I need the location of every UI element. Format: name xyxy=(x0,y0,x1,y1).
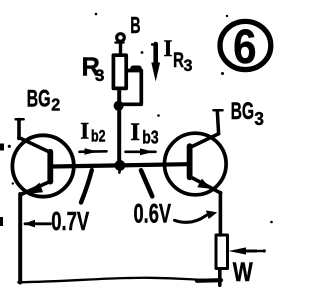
svg-text:BG: BG xyxy=(27,85,51,112)
svg-text:3: 3 xyxy=(184,56,193,75)
svg-text:W: W xyxy=(233,257,253,287)
svg-text:0.7V: 0.7V xyxy=(51,206,89,236)
svg-text:2: 2 xyxy=(51,95,60,115)
svg-text:B: B xyxy=(130,12,140,38)
svg-text:0.6V: 0.6V xyxy=(134,198,172,228)
svg-text:I: I xyxy=(130,119,140,146)
svg-text:I: I xyxy=(164,36,173,61)
svg-text:I: I xyxy=(80,118,89,143)
svg-text:6: 6 xyxy=(233,20,256,74)
svg-text:BG: BG xyxy=(231,98,255,125)
svg-text:3: 3 xyxy=(95,66,104,85)
svg-text:3: 3 xyxy=(254,109,264,129)
svg-text:R: R xyxy=(173,49,184,72)
svg-text:b3: b3 xyxy=(142,127,158,148)
svg-text:b2: b2 xyxy=(91,127,106,146)
